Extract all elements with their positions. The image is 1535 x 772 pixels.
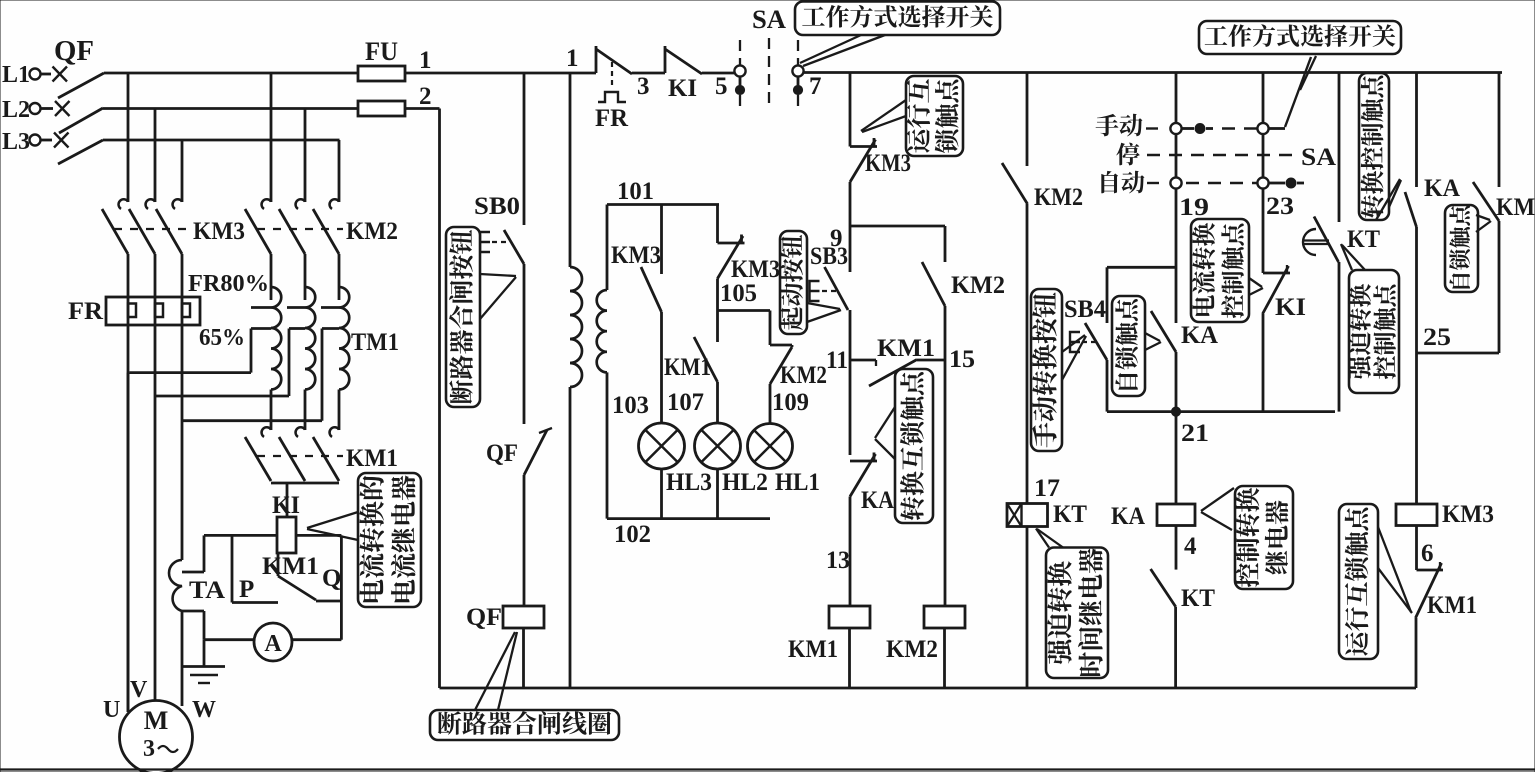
thermal contact FR <box>595 46 598 73</box>
wire <box>849 73 852 147</box>
callout self-hold contact <box>1112 296 1145 396</box>
current changeover contact KA <box>1151 311 1176 352</box>
svg-text:KM3: KM3 <box>865 150 911 177</box>
SA row stop <box>1147 154 1299 156</box>
label manual <box>1096 114 1119 136</box>
svg-text:QF: QF <box>486 440 518 467</box>
svg-text:KM1: KM1 <box>664 354 711 381</box>
contactor KM2 main pole <box>330 199 339 209</box>
contactor KM2 main pole <box>262 199 271 209</box>
svg-text:KM3: KM3 <box>611 242 661 269</box>
svg-text:15: 15 <box>949 346 975 373</box>
wire <box>1415 353 1418 504</box>
wire <box>127 325 130 712</box>
svg-text:U: U <box>103 697 120 723</box>
node line 101 <box>607 203 719 206</box>
bus L3 <box>103 139 340 142</box>
wire <box>523 475 526 606</box>
wire <box>1174 607 1177 688</box>
FR heater element <box>154 297 157 325</box>
svg-text:V: V <box>130 677 148 703</box>
svg-text:101: 101 <box>617 178 654 205</box>
breaker QF pole L3 blade <box>58 140 103 164</box>
wire <box>1175 134 1178 178</box>
autotransformer TM1 winding <box>339 287 349 390</box>
contactor KM3 main pole <box>119 199 128 209</box>
wire <box>716 205 719 244</box>
TM1 tap 65% phase3 <box>322 327 339 330</box>
svg-text:1: 1 <box>566 45 579 72</box>
svg-text:FR: FR <box>595 105 629 132</box>
wire <box>181 140 184 202</box>
svg-text:KM3: KM3 <box>731 256 780 283</box>
svg-text:KM1: KM1 <box>788 636 838 663</box>
svg-text:KM1: KM1 <box>1427 592 1477 619</box>
svg-text:FR: FR <box>68 298 104 325</box>
svg-text:Q: Q <box>322 565 341 592</box>
wire <box>769 311 772 346</box>
svg-text:HL1: HL1 <box>775 469 820 496</box>
callout changeover control contact <box>1359 73 1389 220</box>
svg-text:M: M <box>144 706 169 735</box>
wire <box>1262 314 1265 412</box>
svg-text:KM2: KM2 <box>346 218 398 245</box>
current relay KI coil <box>277 517 296 553</box>
callout breaker closing coil <box>430 710 619 740</box>
bus L1 <box>104 72 358 75</box>
node line 11-15 left <box>849 359 876 362</box>
wire <box>154 325 157 701</box>
callout run interlock contact 2 <box>1339 504 1378 659</box>
wire <box>1175 73 1178 124</box>
wire <box>1498 221 1501 353</box>
current relay contact KI <box>664 46 667 73</box>
measuring box left <box>203 535 206 572</box>
ground <box>203 640 206 667</box>
svg-text:A: A <box>264 631 282 657</box>
wire <box>660 469 663 519</box>
time relay coil KT <box>1007 504 1048 527</box>
phase terminal L1 <box>30 69 41 80</box>
wire <box>1262 73 1265 124</box>
wire <box>660 312 663 423</box>
wire <box>1175 189 1178 324</box>
svg-text:102: 102 <box>614 521 651 548</box>
changeover interlock contact KA <box>850 460 877 463</box>
TM1 tap 65% phase1 <box>251 327 271 330</box>
wire <box>944 306 947 606</box>
callout start pushbutton <box>780 231 807 334</box>
svg-text:65%: 65% <box>199 325 245 351</box>
run interlock contact KM3 <box>850 145 877 148</box>
SA row manual <box>1146 127 1159 129</box>
control transformer secondary <box>606 205 609 291</box>
svg-text:13: 13 <box>826 547 850 574</box>
svg-text:11: 11 <box>826 347 848 374</box>
svg-text:KA: KA <box>1181 322 1218 349</box>
svg-text:SB3: SB3 <box>810 243 848 270</box>
ammeter A <box>254 623 292 661</box>
contactor KM1 main pole <box>296 427 305 437</box>
callout work-mode selector switch <box>795 2 1000 36</box>
control transformer primary <box>569 73 572 267</box>
callout manual changeover pushbutton <box>1031 289 1062 451</box>
svg-text:SA: SA <box>752 5 786 34</box>
wire <box>1026 73 1029 167</box>
svg-text:SA: SA <box>1301 144 1336 171</box>
wire <box>522 628 525 688</box>
wire 2 corner <box>405 107 440 110</box>
wire <box>181 611 184 706</box>
svg-text:KT: KT <box>1347 226 1380 253</box>
callout control changeover relay <box>1235 486 1293 589</box>
wire <box>849 360 852 455</box>
svg-text:KM2: KM2 <box>780 362 827 389</box>
breaker QF pole L2 cross <box>55 101 70 116</box>
node 21 dot <box>1171 407 1180 416</box>
svg-text:107: 107 <box>667 389 704 416</box>
svg-text:25: 25 <box>1423 324 1451 351</box>
wire <box>127 73 130 202</box>
svg-text:KM1: KM1 <box>262 553 319 580</box>
svg-text:FR80%: FR80% <box>188 271 269 297</box>
wire <box>716 382 719 423</box>
TM1 tap 65% phase2 <box>289 327 305 330</box>
contactor KM3 main pole <box>146 199 155 209</box>
breaker QF pole L1 blade <box>58 73 104 98</box>
measuring box right <box>340 535 343 639</box>
contactor coil KM2 <box>924 606 965 628</box>
callout run interlock contact <box>906 76 963 156</box>
callout current changeover control contact <box>1191 219 1249 322</box>
thermal relay FR heater box <box>106 297 200 325</box>
svg-text:L1: L1 <box>2 62 30 88</box>
wire <box>1498 73 1501 188</box>
wire <box>848 628 851 688</box>
KM3 linkage <box>114 228 186 230</box>
node line 21 <box>1107 410 1335 413</box>
svg-text:TM1: TM1 <box>351 329 399 356</box>
FR heater element <box>181 297 184 325</box>
phase terminal L3 <box>30 135 41 146</box>
svg-text:7: 7 <box>809 73 822 100</box>
svg-text:21: 21 <box>1181 420 1209 447</box>
wire <box>716 469 719 519</box>
wire <box>1415 618 1418 688</box>
wire <box>1175 526 1178 570</box>
contact KM3 NC <box>718 242 745 245</box>
autotransformer TM1 winding <box>305 287 315 390</box>
svg-text:3: 3 <box>143 736 155 762</box>
bottom bus <box>440 687 1417 690</box>
wire <box>1262 189 1265 274</box>
wire <box>127 373 130 712</box>
contact KM1 in box <box>278 576 316 600</box>
contactor KM3 main pole <box>173 199 182 209</box>
KM1 shorting bar <box>271 482 339 485</box>
scan page edge <box>0 768 1535 770</box>
wire <box>1415 227 1418 353</box>
svg-text:KM2: KM2 <box>951 272 1005 299</box>
time contact KT <box>1151 569 1176 607</box>
svg-text:17: 17 <box>1034 475 1060 502</box>
svg-text:SB4: SB4 <box>1064 296 1106 323</box>
current relay contact KI <box>1263 272 1290 275</box>
wire <box>523 73 526 225</box>
svg-text:L3: L3 <box>2 129 30 155</box>
callout work-mode selector switch 2 <box>1199 21 1401 54</box>
SA lever <box>1285 57 1311 127</box>
svg-text:2: 2 <box>419 83 432 110</box>
wire <box>1026 204 1029 504</box>
wire <box>338 140 341 202</box>
wire <box>849 497 852 607</box>
node line 25 <box>1417 352 1500 355</box>
svg-text:5: 5 <box>715 73 728 100</box>
svg-text:P: P <box>239 576 254 603</box>
measuring box top <box>204 534 277 537</box>
wire <box>181 325 184 560</box>
pushbutton SB4 <box>1085 323 1107 360</box>
svg-text:KM1: KM1 <box>877 335 935 362</box>
time-delay contact KT rail <box>1338 73 1341 223</box>
svg-text:FU: FU <box>365 37 398 66</box>
wire <box>1175 352 1178 412</box>
wire <box>1106 360 1109 412</box>
svg-text:W: W <box>192 697 216 723</box>
fuse FU2 <box>358 101 405 116</box>
svg-text:23: 23 <box>1266 193 1294 220</box>
node line 105 <box>719 309 771 312</box>
contact KM3 lamp branch <box>660 205 663 275</box>
pushbutton SB3 <box>849 226 852 272</box>
node line 9 <box>850 225 945 228</box>
wire <box>769 384 772 423</box>
contactor coil KM1 <box>829 606 870 628</box>
KM2 linkage <box>257 228 343 230</box>
pushbutton SB0 <box>504 230 524 264</box>
svg-text:QF: QF <box>466 604 502 631</box>
branch line <box>1107 266 1175 269</box>
svg-text:KM2: KM2 <box>1034 184 1083 211</box>
svg-text:KM2: KM2 <box>886 636 938 663</box>
svg-text:KI: KI <box>1275 294 1306 321</box>
svg-text:KA: KA <box>861 487 894 514</box>
FR release symbol <box>611 62 613 88</box>
callout breaker closing pushbutton <box>446 227 480 407</box>
svg-text:KI: KI <box>272 492 300 519</box>
selector SA contact 7 <box>792 65 803 76</box>
wire <box>632 72 665 75</box>
contact KM1 horizontal <box>869 360 917 387</box>
svg-text:KM3: KM3 <box>193 218 245 245</box>
breaker QF pole L3 cross <box>54 133 69 148</box>
bus L2 <box>103 107 358 110</box>
wire 1 main <box>804 71 1503 74</box>
contactor KM2 main pole <box>296 199 305 209</box>
contact KA right <box>1405 192 1417 227</box>
wire <box>1338 262 1341 412</box>
wire <box>286 483 289 517</box>
callout forced changeover control contact <box>1349 270 1399 393</box>
callout self-hold contact 2 <box>1445 205 1478 292</box>
label auto <box>1101 171 1118 193</box>
wire <box>702 72 734 75</box>
svg-text:KT: KT <box>1181 585 1215 612</box>
wire <box>849 310 852 360</box>
breaker aux contact QF <box>524 430 547 475</box>
wire <box>277 553 280 576</box>
closing coil QF <box>503 606 544 628</box>
callout current-operated current relay <box>358 473 421 607</box>
FR heater element <box>127 297 130 325</box>
contactor KM1 main pole <box>330 427 339 437</box>
svg-text:TA: TA <box>189 577 225 604</box>
contactor coil KM3 <box>1396 504 1437 526</box>
node line 11-15 right <box>917 359 945 362</box>
label stop <box>1116 143 1139 166</box>
breaker QF pole L1 cross <box>53 67 68 82</box>
measuring box bottom <box>204 638 254 641</box>
contact KM right <box>1473 182 1499 221</box>
svg-text:4: 4 <box>1184 533 1197 560</box>
svg-text:HL2: HL2 <box>722 469 768 496</box>
svg-text:KA: KA <box>1424 175 1460 202</box>
svg-text:SB0: SB0 <box>474 193 520 220</box>
wire 1 to control <box>405 72 596 75</box>
selector SA contact 5 <box>734 65 745 76</box>
svg-text:KI: KI <box>668 75 697 102</box>
autotransformer TM1 winding <box>271 287 281 390</box>
lamp HL2 <box>695 423 741 469</box>
svg-text:KT: KT <box>1053 501 1087 528</box>
phase terminal L2 <box>30 103 41 114</box>
run interlock contact KM1 <box>1417 569 1444 572</box>
svg-text:3: 3 <box>637 73 650 100</box>
pointer line <box>1300 56 1316 90</box>
time-delay contact KT <box>1314 217 1339 263</box>
svg-text:KM1: KM1 <box>346 445 398 472</box>
relay coil KA <box>1175 412 1178 504</box>
wire <box>270 73 273 202</box>
contact KM1 lamp branch <box>694 337 718 382</box>
wire <box>304 109 307 203</box>
callout changeover interlock contact <box>895 369 933 523</box>
svg-text:103: 103 <box>612 392 649 419</box>
wire <box>1106 267 1109 323</box>
fuse FU1 <box>358 66 405 81</box>
svg-text:6: 6 <box>1421 540 1434 567</box>
node line 102 <box>607 517 770 520</box>
KM1 linkage <box>257 455 343 457</box>
motor M 3~ <box>120 701 193 772</box>
lamp HL1 <box>748 424 793 469</box>
wire <box>1415 73 1418 188</box>
contact KM2 <box>1002 163 1028 204</box>
svg-text:105: 105 <box>720 280 757 307</box>
svg-text:HL3: HL3 <box>666 469 712 496</box>
selector SA shaft <box>768 38 770 110</box>
svg-text:KM3: KM3 <box>1442 501 1494 528</box>
wire <box>716 279 719 343</box>
svg-text:1: 1 <box>419 47 432 74</box>
wire <box>849 182 852 226</box>
wire <box>154 109 157 203</box>
callout forced-changeover time relay <box>1046 548 1108 679</box>
terminal P branch <box>231 535 234 602</box>
svg-text:KM: KM <box>1496 194 1535 221</box>
breaker QF pole L2 blade <box>59 108 103 133</box>
TM1 tap 80% phase3 <box>321 306 339 309</box>
contactor KM1 main pole <box>262 427 271 437</box>
TM1 tap 80% phase2 <box>287 306 305 309</box>
svg-text:QF: QF <box>54 36 94 67</box>
svg-text:KA: KA <box>1111 503 1145 530</box>
svg-text:109: 109 <box>772 389 809 416</box>
wire <box>1262 134 1265 178</box>
current transformer TA <box>169 560 182 611</box>
svg-text:L2: L2 <box>2 97 30 123</box>
TM1 tap 80% phase1 <box>251 306 271 309</box>
wire <box>523 264 526 424</box>
wire <box>1415 526 1418 571</box>
SA row auto <box>1147 182 1159 184</box>
lamp HL3 <box>639 423 685 469</box>
wire <box>943 628 946 688</box>
contact KM2 lamp branch <box>791 345 794 347</box>
contact KM2 branch <box>944 226 947 262</box>
wire <box>1026 527 1029 689</box>
svg-text:19: 19 <box>1179 194 1209 221</box>
